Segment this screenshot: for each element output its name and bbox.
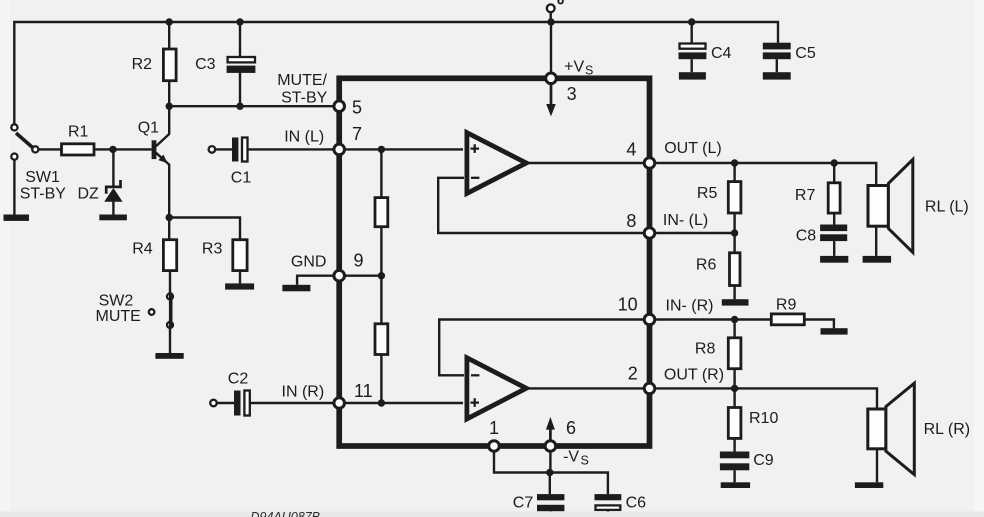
svg-text:R8: R8 <box>695 340 716 357</box>
resistor bias upper <box>375 149 388 275</box>
svg-text:R9: R9 <box>776 297 797 314</box>
svg-text:-V: -V <box>563 449 579 466</box>
svg-text:C4: C4 <box>711 45 732 62</box>
switch SW2 <box>96 293 174 329</box>
svg-text:2: 2 <box>628 364 638 384</box>
pin 3 +Vs arrow <box>546 84 556 117</box>
op-amp A (left channel) <box>467 133 526 194</box>
svg-text:MUTE/: MUTE/ <box>277 72 327 89</box>
wire pin 1 to -Vs node <box>494 451 550 472</box>
bottom strip <box>0 512 984 517</box>
svg-text:R10: R10 <box>749 410 778 427</box>
ground C5 <box>763 72 791 79</box>
node junction emitter row <box>166 214 173 221</box>
pin 1 <box>489 441 500 452</box>
svg-text:IN- (L): IN- (L) <box>663 212 708 229</box>
wire MUTE/ST-BY row to pin 5 <box>169 105 334 107</box>
ground SW2 <box>155 353 183 359</box>
svg-text:IN- (R): IN- (R) <box>666 297 714 314</box>
capacitor C2 <box>210 371 334 416</box>
resistor R7 <box>795 163 840 225</box>
ground C9 <box>721 482 750 488</box>
svg-text:S: S <box>581 454 589 468</box>
svg-text:5: 5 <box>352 97 362 117</box>
svg-text:ST-BY: ST-BY <box>20 186 67 203</box>
zener diode DZ <box>78 149 123 214</box>
resistor R2 <box>132 22 176 106</box>
svg-text:ST-BY: ST-BY <box>281 89 328 106</box>
node junction +Vs rail <box>547 18 554 25</box>
node junction R5 bottom / R6 top <box>731 229 738 236</box>
svg-text:S: S <box>585 64 593 78</box>
capacitor C9 <box>720 452 774 483</box>
svg-text:SW1: SW1 <box>25 169 60 186</box>
resistor bias lower <box>375 276 388 403</box>
speaker RL (R) <box>868 383 970 482</box>
ground speaker L <box>863 256 892 263</box>
wire emitter row to R3 <box>169 218 240 240</box>
wire pin 11 to op-amp B + input <box>345 402 464 404</box>
ground C8 <box>820 256 848 263</box>
pin 4 <box>644 158 655 169</box>
wire IN- (R) row <box>655 318 772 320</box>
capacitor C5 <box>763 43 816 72</box>
op-amp U1 IC outline <box>339 78 649 446</box>
wire SW1 lower throw to ground <box>13 160 15 215</box>
terminal small circle (cut) <box>558 0 563 4</box>
pin 9 <box>334 270 345 281</box>
svg-text:C7: C7 <box>513 495 534 512</box>
wire +Vs terminal to rail <box>550 12 552 22</box>
ground DZ <box>99 215 127 221</box>
node junction R7 top <box>831 159 838 166</box>
svg-text:+V: +V <box>564 59 584 76</box>
resistor R8 <box>695 320 741 389</box>
pin 2 <box>644 383 655 394</box>
svg-text:DZ: DZ <box>78 186 100 203</box>
svg-text:C8: C8 <box>796 228 817 245</box>
resistor R1 <box>39 124 152 155</box>
ground C4 <box>679 72 706 79</box>
terminal +Vs <box>547 4 555 12</box>
pin 6 <box>545 441 556 452</box>
node junction -Vs <box>546 469 553 476</box>
svg-text:11: 11 <box>354 381 373 401</box>
svg-text:8: 8 <box>626 211 636 231</box>
transistor Q1 <box>138 106 170 217</box>
wire +Vs rail to pin 3 <box>550 22 552 75</box>
resistor R4 <box>132 240 177 294</box>
svg-text:RL (L): RL (L) <box>925 199 969 216</box>
svg-text:7: 7 <box>352 124 362 144</box>
pin 3 <box>546 73 557 84</box>
svg-text:C9: C9 <box>753 452 774 469</box>
svg-text:C6: C6 <box>626 495 647 512</box>
node junction C3 bottom <box>236 103 243 110</box>
node junction R2 top <box>166 18 173 25</box>
label -Vs <box>563 449 589 468</box>
pin 8 <box>644 228 655 239</box>
wire -Vs node to C7 <box>549 473 551 495</box>
capacitor C1 <box>209 138 334 187</box>
speaker RL (L) <box>868 160 969 256</box>
node junction C3 top <box>236 18 243 25</box>
svg-text:R2: R2 <box>132 56 153 73</box>
node label MUTE/ST-BY <box>277 72 327 107</box>
ground speaker R <box>855 482 883 488</box>
svg-text:R3: R3 <box>202 240 223 257</box>
svg-text:9: 9 <box>354 250 364 270</box>
wire emitter to R4 <box>168 218 170 240</box>
wire IN- (L) row <box>655 232 735 234</box>
resistor R3 <box>202 240 247 284</box>
ground R3 <box>225 283 254 289</box>
node junction R1 / DZ / Q1 base <box>109 146 116 153</box>
pin 7 <box>334 144 345 155</box>
node junction R5 top <box>731 159 738 166</box>
svg-text:3: 3 <box>567 84 577 104</box>
svg-text:6: 6 <box>566 418 576 438</box>
svg-text:OUT (L): OUT (L) <box>664 140 721 157</box>
pin 10 <box>644 314 655 325</box>
capacitor C4 <box>679 22 732 72</box>
svg-text:D94AU087B: D94AU087B <box>251 510 321 517</box>
wire pin 7 to op-amp A + input <box>345 148 464 150</box>
svg-text:R7: R7 <box>795 187 816 204</box>
wire SW2 to ground <box>169 328 171 353</box>
svg-text:RL (R): RL (R) <box>924 421 971 438</box>
svg-text:C2: C2 <box>228 371 249 388</box>
node junction bias resistor top <box>378 146 385 153</box>
wire op-amp A output to pin 4 <box>527 162 647 164</box>
op-amp B (right channel) <box>467 358 526 419</box>
capacitor C3 <box>195 22 255 106</box>
wire OUT (R) row <box>655 388 877 409</box>
node junction R2 bottom <box>166 103 173 110</box>
svg-text:R5: R5 <box>697 185 718 202</box>
wire feedback op-amp A to pin 8 <box>438 178 646 233</box>
ground SW1 <box>4 215 30 221</box>
svg-text:MUTE: MUTE <box>96 308 141 325</box>
svg-text:R1: R1 <box>68 124 89 141</box>
svg-text:C1: C1 <box>231 170 252 187</box>
resistor R6 <box>696 233 740 299</box>
svg-text:OUT (R): OUT (R) <box>664 367 724 384</box>
wire feedback op-amp B to pin 10 <box>439 320 646 376</box>
resistor R5 <box>697 163 741 233</box>
pin 11 <box>334 398 345 409</box>
svg-text:IN (R): IN (R) <box>282 384 325 401</box>
capacitor C6 <box>595 494 647 513</box>
node junction R10 top <box>731 385 738 392</box>
wire GND hook to pin 9 <box>297 276 381 285</box>
svg-text:R6: R6 <box>696 257 717 274</box>
pin 5 <box>334 101 345 112</box>
label +Vs <box>564 59 593 78</box>
svg-text:4: 4 <box>626 139 636 159</box>
switch SW1 <box>11 124 66 202</box>
svg-text:1: 1 <box>489 418 499 438</box>
wire -Vs node to C6 <box>550 473 608 495</box>
capacitor C7 <box>513 494 565 513</box>
svg-text:R4: R4 <box>132 240 153 257</box>
wire op-amp B output to pin 2 <box>527 387 647 389</box>
node junction C4 top <box>688 18 695 25</box>
capacitor C8 <box>796 225 847 256</box>
wire top rail <box>14 22 778 125</box>
resistor R10 <box>728 388 778 451</box>
node junction bias mid <box>378 272 385 279</box>
wire pin 6 to -Vs node <box>549 451 551 472</box>
ground R6 <box>722 299 749 305</box>
pin 6 -Vs arrow <box>546 417 555 441</box>
wire OUT (L) row <box>655 163 876 186</box>
svg-text:GND: GND <box>291 254 327 271</box>
svg-text:C5: C5 <box>795 45 816 62</box>
node junction R8 top / R9 <box>731 316 738 323</box>
ground GND pin9 <box>282 285 310 292</box>
svg-text:10: 10 <box>618 295 638 315</box>
svg-text:C3: C3 <box>195 56 216 73</box>
svg-text:IN (L): IN (L) <box>284 129 324 146</box>
ground R9 <box>821 328 848 334</box>
node junction bias bottom <box>378 399 385 406</box>
svg-text:Q1: Q1 <box>138 119 159 136</box>
resistor R9 <box>771 297 834 329</box>
